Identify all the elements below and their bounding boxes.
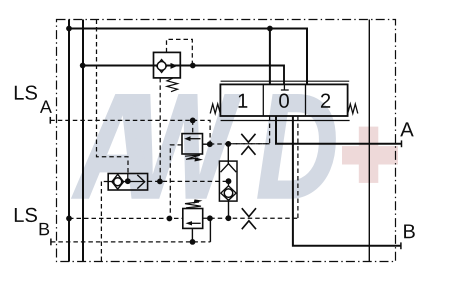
tall check valve TC ball: [224, 189, 233, 198]
shuttle valve SH box: [108, 174, 147, 191]
check valve CV1 pilot dashed: [167, 39, 193, 65]
tall check valve TC diamond: [221, 186, 236, 201]
relief valve LB arrow: [189, 222, 201, 224]
node tall check mid: [226, 178, 232, 184]
tall check valve TC mid stub: [228, 181, 230, 186]
check valve CV1 diamond: [156, 60, 166, 73]
check valve CV1 ball: [157, 62, 166, 71]
check valve CV1 drain dashed: [159, 78, 161, 181]
node pilot tap: [190, 63, 196, 69]
valve divider 1|0: [262, 84, 264, 116]
label LS (A): [15, 86, 37, 100]
valve blocked port T symbol: [281, 84, 289, 90]
compensator UB box: [182, 134, 203, 154]
node tall check bottom: [226, 215, 232, 221]
wire P branch to valve: [269, 29, 271, 85]
wire T vertical V2: [82, 20, 84, 262]
relief valve LB bottom stub: [191, 228, 193, 242]
wire LS A to compensator corner: [193, 120, 210, 144]
node X line tap: [225, 141, 231, 147]
check valve CV1 arrow: [171, 63, 178, 69]
label LS (B): [15, 208, 37, 222]
shuttle valve SH right line dashed: [148, 180, 229, 182]
wire compensator output dashed: [210, 143, 229, 145]
node shuttle out: [125, 178, 131, 184]
node relief drain: [190, 239, 196, 245]
shuttle valve SH left port dashed: [101, 182, 108, 263]
wire X line dashed: [228, 143, 269, 145]
wire LS B upper dashed left: [69, 217, 183, 219]
wire LS B upper dashed right: [203, 217, 298, 219]
shuttle valve SH diamond: [112, 174, 124, 189]
label port A: [400, 122, 413, 136]
valve right spring: [348, 104, 358, 114]
directional valve box: [220, 84, 347, 116]
label valve 1: [239, 94, 248, 108]
compensator UB spring below: [185, 155, 200, 159]
node LS B right: [207, 215, 213, 221]
wire port B: [293, 116, 401, 246]
wire LS A dashed line: [50, 119, 192, 121]
valve body line below: [221, 120, 350, 122]
wire right section line: [368, 20, 370, 262]
LS A port tick: [49, 117, 51, 124]
check valve CV1 box: [154, 52, 181, 78]
valve body line above: [221, 80, 350, 82]
relief valve LB right riser: [209, 218, 211, 242]
label valve 0: [279, 94, 289, 108]
wire check valve feed line: [83, 66, 284, 85]
node LS A tap: [190, 118, 196, 124]
port B tick: [400, 242, 402, 249]
node P top: [66, 26, 72, 32]
node compensator out: [207, 141, 213, 147]
wire LS B lower dashed: [51, 241, 211, 243]
enclosure border dash-dot: [57, 20, 396, 262]
check valve CV1 spring: [167, 78, 178, 92]
label port B: [404, 224, 415, 238]
compensator UB arrow: [187, 138, 201, 140]
shuttle valve SH ball: [114, 178, 122, 186]
tall check valve TC box: [219, 161, 237, 201]
label valve 2: [321, 94, 330, 108]
node CV feed: [80, 63, 86, 69]
plugged port X lower: [242, 208, 256, 229]
watermark plus horizontal bar: [342, 146, 398, 164]
tall check valve TC bottom stub: [228, 200, 230, 218]
tall check valve TC top stub: [227, 144, 229, 164]
label B subscript: [40, 223, 50, 235]
shuttle valve SH seat chevron: [137, 175, 144, 189]
node LS B V1: [66, 216, 72, 222]
port A tick: [401, 140, 403, 147]
tall check valve TC top chevron: [221, 164, 237, 173]
shuttle valve SH line through: [108, 181, 145, 183]
LS B port tick: [50, 239, 52, 246]
valve divider 0|2: [305, 84, 307, 116]
compensator UB right port: [203, 143, 210, 145]
valve left spring: [210, 104, 220, 114]
shuttle valve SH top stub: [127, 174, 129, 182]
node LS B left: [167, 216, 173, 222]
compensator UB top stub dashed: [192, 120, 194, 133]
relief valve LB box: [183, 209, 203, 229]
node P branch: [267, 26, 273, 32]
compensator UB left port dashed: [170, 145, 182, 219]
watermark plus vertical bar: [359, 127, 379, 183]
wire top P line: [69, 29, 307, 85]
label A subscript: [40, 101, 52, 113]
relief valve LB spring above: [185, 202, 201, 208]
plugged port X upper: [241, 134, 255, 155]
label watermark AWD: [72, 95, 335, 198]
node drain join: [157, 179, 163, 185]
wire LS dashed vertical V3 to shuttle: [97, 20, 129, 174]
wire valve bottom dashed to X line: [228, 116, 269, 144]
wire port A: [276, 116, 402, 144]
wire P vertical V1: [68, 20, 70, 262]
wire valve bottom dashed LS B riser: [297, 116, 299, 218]
